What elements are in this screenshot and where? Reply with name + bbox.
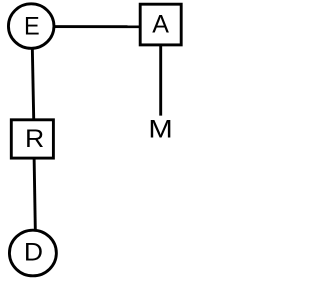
svg-text:E: E bbox=[24, 13, 40, 41]
node M bbox=[147, 115, 175, 143]
svg-text:D: D bbox=[24, 239, 43, 266]
wire R-D bbox=[34, 139, 36, 253]
svg-text:M: M bbox=[148, 115, 172, 143]
wire A-M bbox=[159, 27, 162, 116]
node R bbox=[11, 120, 53, 158]
wire E-R bbox=[32, 26, 34, 139]
svg-text:R: R bbox=[25, 126, 44, 153]
node A bbox=[140, 4, 181, 45]
svg-text:A: A bbox=[152, 11, 169, 39]
wire E-A bbox=[31, 25, 160, 28]
node D bbox=[9, 230, 56, 276]
node E bbox=[8, 4, 54, 49]
